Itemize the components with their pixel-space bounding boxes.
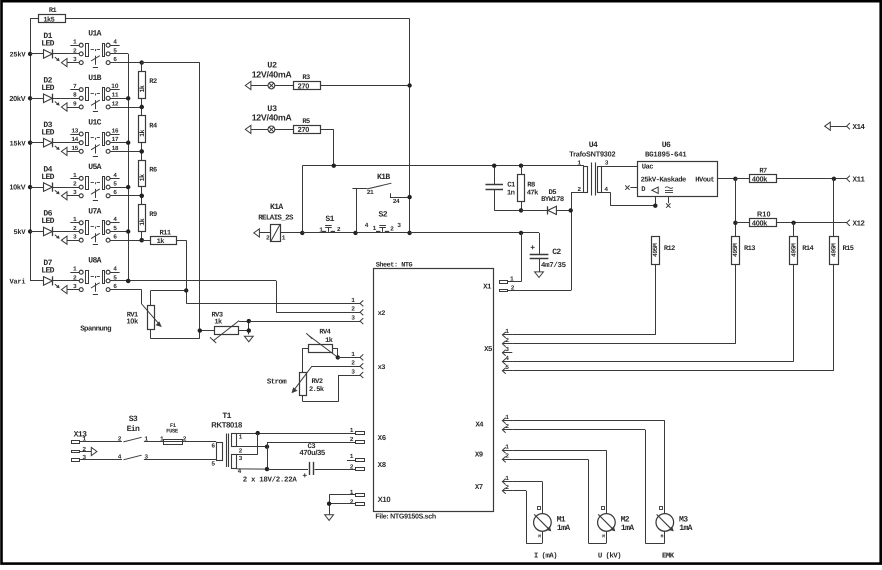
svg-text:RKT8018: RKT8018 xyxy=(211,421,243,430)
sheet NTG xyxy=(374,261,494,520)
trimmer RV3 xyxy=(200,312,249,343)
svg-text:1mA: 1mA xyxy=(557,524,570,533)
svg-text:LED: LED xyxy=(41,128,54,137)
wire xyxy=(30,187,43,189)
wire xyxy=(507,233,521,282)
svg-text:1k: 1k xyxy=(157,237,165,246)
junction xyxy=(126,229,130,233)
resistor R2 xyxy=(139,63,157,107)
wire xyxy=(410,232,539,234)
junction xyxy=(126,141,130,145)
resistor R4 xyxy=(139,107,157,151)
junction xyxy=(653,177,738,208)
svg-text:LED: LED xyxy=(41,267,54,276)
svg-text:15kV: 15kV xyxy=(9,139,26,148)
svg-text:X4: X4 xyxy=(475,422,484,430)
svg-text:270: 270 xyxy=(298,125,310,134)
svg-text:2 x 18V/2.22A: 2 x 18V/2.22A xyxy=(243,476,298,485)
connector X14 xyxy=(825,122,866,132)
node 20kV xyxy=(9,94,25,103)
svg-text:K1B: K1B xyxy=(377,173,390,182)
junction xyxy=(126,279,130,283)
junction xyxy=(140,194,144,198)
LED D1 xyxy=(41,32,70,61)
lamp U2 xyxy=(245,61,293,90)
wire xyxy=(144,441,164,443)
wire xyxy=(302,232,409,234)
junction xyxy=(28,141,32,145)
junction xyxy=(126,96,130,100)
svg-text:10: 10 xyxy=(111,83,119,90)
svg-text:17: 17 xyxy=(112,136,119,143)
resistor R11 xyxy=(142,229,187,246)
wire xyxy=(512,361,793,363)
wire xyxy=(512,421,665,514)
svg-text:R3: R3 xyxy=(302,74,310,82)
wire xyxy=(338,357,357,359)
junction xyxy=(140,105,144,109)
svg-text:Spannung: Spannung xyxy=(80,325,112,333)
wire xyxy=(237,433,258,455)
svg-text:400k: 400k xyxy=(752,175,768,184)
svg-text:1k5: 1k5 xyxy=(43,15,54,24)
svg-text:47k: 47k xyxy=(527,189,539,198)
resistor R9 xyxy=(139,196,157,240)
wire xyxy=(329,495,347,515)
wire xyxy=(142,63,200,331)
svg-text:U7A: U7A xyxy=(88,207,101,216)
resistor R8 xyxy=(518,166,540,211)
svg-text:1mA: 1mA xyxy=(679,524,692,533)
svg-text:1k: 1k xyxy=(139,218,146,225)
wire xyxy=(507,192,571,290)
junction xyxy=(519,231,523,235)
fuse F1 xyxy=(160,422,187,445)
svg-text:S2: S2 xyxy=(378,211,387,220)
svg-text:13: 13 xyxy=(71,127,78,134)
svg-text:11: 11 xyxy=(112,92,119,99)
svg-text:Sheet: NTG: Sheet: NTG xyxy=(376,261,413,269)
wire xyxy=(30,98,43,100)
capacitor C2 xyxy=(530,233,567,272)
capacitor C3 xyxy=(267,443,355,481)
svg-text:R12: R12 xyxy=(664,245,675,253)
node 25kV xyxy=(9,51,26,60)
potentiometer RV2 xyxy=(267,366,339,401)
wire xyxy=(128,54,130,281)
svg-text:12V/40mA: 12V/40mA xyxy=(252,113,293,123)
svg-text:X10: X10 xyxy=(378,495,391,504)
wire xyxy=(91,447,97,455)
relay coil K1A xyxy=(254,203,302,241)
node 5kV xyxy=(13,228,26,237)
connector X1 xyxy=(500,275,515,291)
svg-text:X14: X14 xyxy=(853,124,866,132)
svg-text:R2: R2 xyxy=(149,78,157,86)
wire xyxy=(409,19,411,233)
svg-text:LED: LED xyxy=(41,173,54,182)
connector X7 xyxy=(502,475,512,494)
svg-text:R14: R14 xyxy=(802,245,813,253)
svg-text:U (kV): U (kV) xyxy=(598,552,621,561)
wire xyxy=(320,85,410,87)
connector X10 xyxy=(347,489,365,506)
LED D6 xyxy=(41,210,70,239)
LED D4 xyxy=(41,165,70,194)
connector X2 xyxy=(347,297,363,324)
svg-text:BYW178: BYW178 xyxy=(541,196,564,204)
junction xyxy=(140,105,144,109)
junction xyxy=(519,208,523,212)
wire xyxy=(237,446,267,448)
ground xyxy=(325,515,334,521)
wire xyxy=(512,491,542,544)
junction xyxy=(28,229,32,233)
connector X12 xyxy=(847,220,866,229)
wire xyxy=(184,441,216,443)
svg-text:495M: 495M xyxy=(831,243,838,257)
svg-text:R11: R11 xyxy=(160,229,171,237)
wire xyxy=(186,240,188,303)
LED D2 xyxy=(41,77,70,106)
junction xyxy=(327,502,331,506)
wire xyxy=(512,482,542,514)
LED D3 xyxy=(41,121,70,150)
junction xyxy=(140,149,144,153)
svg-text:20kV: 20kV xyxy=(9,94,25,103)
junction xyxy=(569,208,573,212)
svg-text:R10: R10 xyxy=(757,210,771,219)
svg-text:1k: 1k xyxy=(139,85,146,92)
wire xyxy=(30,53,43,55)
wire xyxy=(512,459,606,543)
svg-text:495M: 495M xyxy=(732,243,739,257)
wire xyxy=(329,503,347,505)
svg-text:Vari: Vari xyxy=(9,278,25,287)
svg-text:R13: R13 xyxy=(744,245,755,253)
wire xyxy=(793,223,795,237)
svg-text:2.5k: 2.5k xyxy=(309,385,324,394)
wire xyxy=(512,450,606,513)
svg-text:R5: R5 xyxy=(302,118,310,126)
switch U1A xyxy=(61,30,128,68)
wire xyxy=(110,62,142,64)
wire xyxy=(30,280,43,282)
svg-text:270: 270 xyxy=(298,81,310,90)
wire xyxy=(512,264,655,335)
svg-text:C2: C2 xyxy=(552,248,561,257)
resistor R10 xyxy=(735,210,846,228)
svg-text:10k: 10k xyxy=(127,317,140,326)
wire xyxy=(735,179,737,237)
svg-text:470u/35: 470u/35 xyxy=(300,448,325,457)
junction xyxy=(300,231,304,235)
junction xyxy=(126,185,130,189)
svg-text:K1A: K1A xyxy=(270,203,283,212)
svg-text:21: 21 xyxy=(367,189,374,196)
wire xyxy=(110,151,142,153)
svg-text:X5: X5 xyxy=(484,346,493,354)
wire xyxy=(110,240,142,242)
svg-text:X9: X9 xyxy=(475,452,483,460)
svg-text:495M: 495M xyxy=(652,243,659,257)
junction xyxy=(265,445,269,449)
wire xyxy=(79,459,122,461)
svg-text:EMK: EMK xyxy=(662,553,675,561)
svg-text:1mA: 1mA xyxy=(621,524,634,533)
ground xyxy=(535,272,544,278)
svg-text:1k: 1k xyxy=(214,318,222,327)
connector X5 xyxy=(502,328,512,374)
junction xyxy=(140,238,144,242)
svg-text:File: NTG9150S.sch: File: NTG9150S.sch xyxy=(375,513,436,521)
junction xyxy=(791,221,795,225)
trimmer RV4 xyxy=(302,329,337,373)
svg-text:R6: R6 xyxy=(149,167,157,175)
diode D5 xyxy=(521,189,571,215)
svg-text:X11: X11 xyxy=(853,177,866,185)
wire xyxy=(128,281,356,313)
wire xyxy=(30,19,32,281)
svg-text:U8A: U8A xyxy=(88,257,101,266)
junction xyxy=(126,279,130,283)
svg-text:4m7/35: 4m7/35 xyxy=(541,261,567,270)
svg-text:U6: U6 xyxy=(662,141,671,150)
svg-text:Uac: Uac xyxy=(642,163,653,171)
svg-text:LED: LED xyxy=(41,217,54,226)
wire xyxy=(302,166,584,233)
transformer U4 xyxy=(569,141,655,206)
meter M1 xyxy=(534,507,571,561)
svg-text:18: 18 xyxy=(112,145,119,152)
svg-text:U1C: U1C xyxy=(88,119,101,128)
wire xyxy=(110,290,142,305)
resistor R3 xyxy=(294,74,321,90)
junction xyxy=(407,195,411,199)
wire xyxy=(144,459,216,461)
svg-text:X6: X6 xyxy=(378,435,387,443)
junction xyxy=(140,238,144,242)
junction xyxy=(492,164,523,168)
resistor R14 xyxy=(790,237,814,362)
svg-text:RELAIS_2S: RELAIS_2S xyxy=(258,214,294,222)
connector X6 xyxy=(347,427,365,444)
svg-text:X8: X8 xyxy=(378,462,387,470)
wire xyxy=(512,430,665,544)
switch U5A xyxy=(61,163,128,201)
wire xyxy=(186,303,356,305)
svg-text:12: 12 xyxy=(112,100,119,107)
junction xyxy=(265,467,269,471)
svg-text:15: 15 xyxy=(71,145,78,152)
switch S2 xyxy=(365,211,401,233)
connector X8 xyxy=(347,453,365,470)
svg-text:S3: S3 xyxy=(129,415,138,424)
svg-text:U5A: U5A xyxy=(88,163,101,172)
wire xyxy=(237,468,267,470)
connector X11 xyxy=(847,176,866,185)
svg-text:5kV: 5kV xyxy=(13,228,26,237)
svg-text:X12: X12 xyxy=(853,220,866,229)
junction xyxy=(336,355,340,359)
resistor R13 xyxy=(732,237,756,344)
wire xyxy=(833,179,835,237)
wire xyxy=(312,366,357,368)
switch S1 xyxy=(319,215,341,234)
node 15kV xyxy=(9,139,26,148)
LED D7 xyxy=(41,259,70,288)
svg-text:S1: S1 xyxy=(325,215,334,224)
junction xyxy=(140,149,144,153)
svg-text:1n: 1n xyxy=(507,190,515,198)
svg-text:1k: 1k xyxy=(139,130,146,137)
resistor R12 xyxy=(652,237,676,335)
junction xyxy=(140,60,144,64)
resistor R5 xyxy=(294,118,321,134)
HV cascade U6 xyxy=(625,141,735,208)
meter M3 xyxy=(656,507,693,561)
svg-text:R8: R8 xyxy=(527,181,535,189)
svg-text:14: 14 xyxy=(71,136,78,143)
lamp U3 xyxy=(245,104,293,134)
svg-text:I (mA): I (mA) xyxy=(534,552,557,561)
switch U8A xyxy=(61,257,128,295)
svg-text:RV2: RV2 xyxy=(312,378,323,386)
junction xyxy=(353,231,412,235)
relay contact K1B xyxy=(352,173,409,233)
meter M2 xyxy=(598,507,635,561)
ground xyxy=(244,336,253,342)
connector X13 xyxy=(72,431,92,462)
junction xyxy=(28,52,32,56)
svg-text:25kV-Kaskade: 25kV-Kaskade xyxy=(641,175,686,184)
svg-text:400k: 400k xyxy=(752,219,768,228)
connector X4 xyxy=(502,414,512,433)
potentiometer RV1 xyxy=(80,291,200,339)
svg-text:HVout: HVout xyxy=(695,176,714,184)
junction xyxy=(733,221,737,225)
svg-text:BG1895-641: BG1895-641 xyxy=(645,152,687,160)
svg-text:495M: 495M xyxy=(790,243,797,257)
svg-text:RV4: RV4 xyxy=(319,329,330,337)
svg-text:FUSE: FUSE xyxy=(166,428,179,435)
junction xyxy=(140,194,144,198)
connector X9 xyxy=(502,444,512,463)
svg-text:12V/40mA: 12V/40mA xyxy=(252,69,293,79)
resistor R15 xyxy=(830,237,854,371)
svg-text:24: 24 xyxy=(393,198,400,205)
svg-text:R1: R1 xyxy=(49,7,57,15)
wire xyxy=(79,441,122,443)
svg-text:TrafoSNT9302: TrafoSNT9302 xyxy=(569,150,615,159)
svg-text:x2: x2 xyxy=(378,310,386,318)
connector X3 xyxy=(347,351,363,378)
transformer T1 xyxy=(211,412,297,485)
svg-text:Ein: Ein xyxy=(127,425,140,434)
junction xyxy=(184,288,188,292)
wire xyxy=(30,231,43,233)
wire xyxy=(512,264,735,344)
junction xyxy=(198,319,251,333)
svg-text:LED: LED xyxy=(41,40,54,49)
wire xyxy=(30,142,43,144)
svg-text:16: 16 xyxy=(112,127,119,134)
junction xyxy=(332,164,336,168)
svg-text:LED: LED xyxy=(41,84,54,93)
resistor R1 xyxy=(30,7,410,24)
wire xyxy=(320,129,334,165)
svg-text:C1: C1 xyxy=(507,181,516,189)
junction xyxy=(28,185,32,189)
svg-text:U1B: U1B xyxy=(88,74,101,83)
svg-text:1k: 1k xyxy=(325,336,333,345)
svg-text:U1A: U1A xyxy=(88,30,101,39)
switch U7A xyxy=(61,207,128,244)
svg-text:Strom: Strom xyxy=(267,379,287,387)
svg-text:R15: R15 xyxy=(843,245,854,253)
wire xyxy=(110,107,142,109)
wire xyxy=(512,370,834,372)
resistor R7 xyxy=(735,168,846,184)
junction xyxy=(832,177,836,181)
wire xyxy=(249,321,357,323)
svg-text:10kV: 10kV xyxy=(9,183,25,192)
junction xyxy=(256,431,260,435)
svg-text:1k: 1k xyxy=(139,174,146,181)
wire xyxy=(267,442,355,469)
svg-text:R7: R7 xyxy=(759,168,767,176)
node Vari xyxy=(9,278,25,287)
junction xyxy=(407,83,411,87)
capacitor C1 xyxy=(486,166,522,211)
wire xyxy=(110,195,142,197)
resistor R6 xyxy=(139,151,157,195)
switch S3 xyxy=(118,415,149,460)
wire xyxy=(339,375,357,377)
node 10kV xyxy=(9,183,25,192)
switch U1C xyxy=(61,119,128,157)
junction xyxy=(28,96,32,100)
wire xyxy=(237,433,356,435)
switch U1B xyxy=(61,74,128,111)
svg-text:X7: X7 xyxy=(475,484,483,492)
svg-text:R9: R9 xyxy=(149,211,157,219)
svg-text:x3: x3 xyxy=(378,364,386,372)
svg-text:X1: X1 xyxy=(483,284,492,292)
svg-text:R4: R4 xyxy=(149,122,157,130)
svg-text:25kV: 25kV xyxy=(9,51,26,60)
